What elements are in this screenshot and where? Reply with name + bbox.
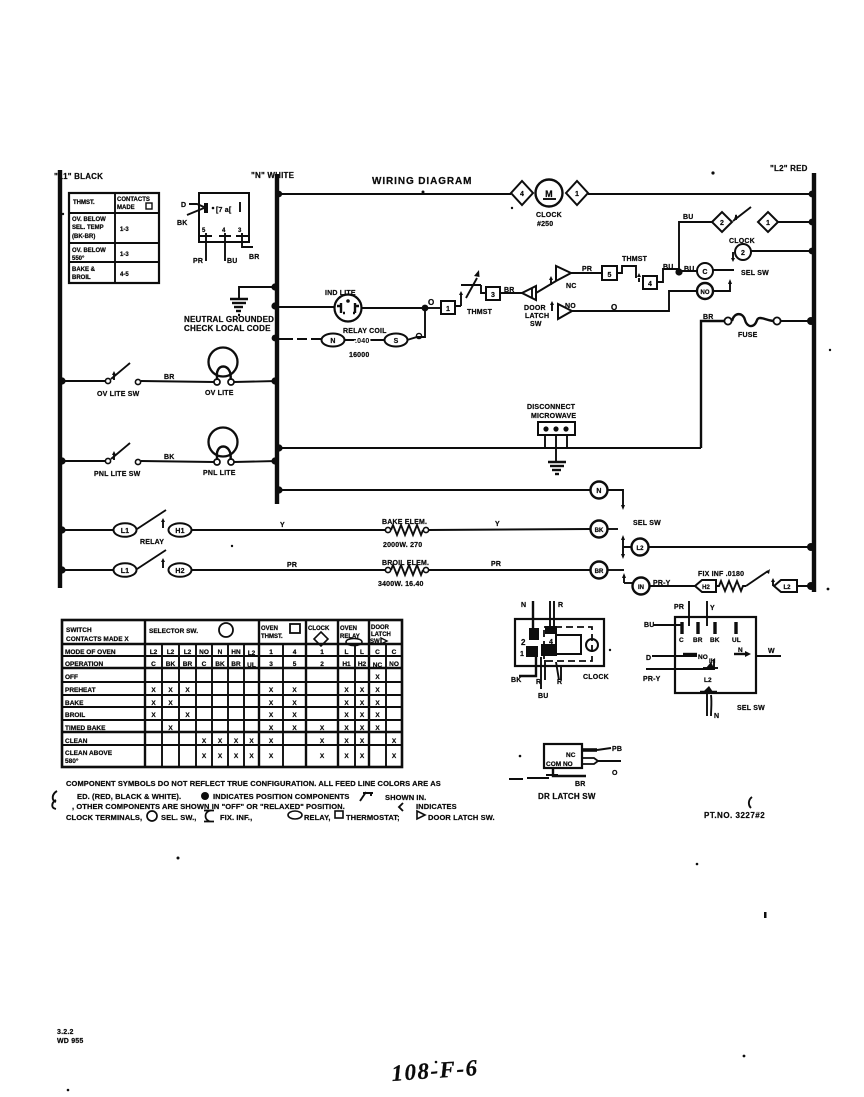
- svg-text:X: X: [168, 725, 173, 732]
- svg-text:(BK-BR): (BK-BR): [72, 234, 95, 240]
- scan mark paren: [749, 797, 752, 808]
- svg-text:O: O: [428, 298, 434, 307]
- terminal o: [416, 333, 421, 338]
- svg-text:X: X: [292, 712, 297, 719]
- svg-text:L: L: [360, 649, 364, 656]
- svg-text:NC: NC: [566, 283, 577, 290]
- terminal box 3: [486, 287, 500, 300]
- svg-text:PR: PR: [582, 266, 592, 273]
- lead Y: [706, 601, 708, 626]
- node N pnl lite: [271, 457, 278, 464]
- wire N bus to relay coil (dashed scan): [277, 338, 321, 340]
- svg-text:NC: NC: [373, 662, 383, 669]
- svg-text:L2: L2: [783, 585, 791, 591]
- clock terminal 1b (diamond): [758, 212, 778, 232]
- node N sel row: [275, 486, 282, 493]
- svg-text:M: M: [545, 189, 553, 199]
- wire PR-Y: [646, 659, 714, 669]
- wire fuse corner BR: [701, 321, 725, 448]
- svg-text:SEL SW: SEL SW: [737, 705, 765, 712]
- svg-text:X: X: [344, 725, 349, 732]
- svg-text:N: N: [714, 713, 719, 720]
- svg-text:OPERATION: OPERATION: [65, 661, 103, 668]
- wire L1 to pnl lite sw: [60, 460, 106, 462]
- svg-text:X: X: [185, 687, 190, 694]
- svg-text:R: R: [558, 602, 563, 609]
- svg-text:BROIL: BROIL: [65, 712, 85, 719]
- clock detail box: [515, 619, 609, 681]
- svg-text:PT.NO. 3227#2: PT.NO. 3227#2: [704, 811, 765, 820]
- clock lead BU: [540, 657, 542, 689]
- svg-text:OV LITE SW: OV LITE SW: [97, 391, 140, 398]
- node BU junction: [675, 268, 682, 275]
- svg-text:1-3: 1-3: [120, 227, 129, 233]
- svg-text:BK: BK: [164, 454, 175, 461]
- svg-text:OV. BELOW: OV. BELOW: [72, 248, 106, 254]
- svg-text:3.2.2: 3.2.2: [57, 1029, 74, 1036]
- table X marks: [151, 674, 397, 760]
- contact arrow clock2: [732, 252, 734, 258]
- svg-text:IND LITE: IND LITE: [325, 290, 356, 297]
- terminal box 4: [643, 276, 657, 289]
- lead D to NO: [646, 654, 708, 662]
- wire pnl lamp to N bus: [234, 461, 277, 462]
- svg-text:DOOR: DOOR: [371, 625, 390, 631]
- svg-text:S: S: [394, 338, 399, 345]
- svg-text:X: X: [269, 753, 274, 760]
- svg-text:COMPONENT SYMBOLS DO NOT REFLE: COMPONENT SYMBOLS DO NOT REFLECT TRUE CO…: [66, 779, 441, 788]
- wire pin3 BR: [242, 236, 253, 247]
- svg-text:CLOCK: CLOCK: [583, 674, 609, 681]
- svg-text:X: X: [375, 687, 380, 694]
- fix inf H2 terminal: [695, 580, 716, 592]
- svg-text:BAKE: BAKE: [65, 700, 84, 707]
- sel sw N terminal: [591, 482, 608, 499]
- resistor fix inf: [716, 581, 746, 591]
- svg-text:L1: L1: [121, 568, 130, 575]
- wire microwave row: [277, 447, 701, 449]
- wire N bus to clock motor (top line): [277, 193, 511, 195]
- fuse: [724, 314, 780, 339]
- node L2 top: [809, 191, 816, 198]
- coil value .040: [344, 339, 385, 341]
- svg-text:2: 2: [521, 638, 526, 647]
- node N relay coil: [272, 335, 279, 342]
- svg-text:DOOR: DOOR: [524, 305, 546, 312]
- wire box 3 BR to door latch: [500, 292, 522, 294]
- svg-text:NEUTRAL GROUNDED: NEUTRAL GROUNDED: [184, 315, 274, 324]
- svg-text:X: X: [249, 738, 254, 745]
- table operation row cells: [151, 661, 399, 669]
- svg-text:RELAY COIL: RELAY COIL: [343, 328, 387, 335]
- svg-text:BR: BR: [504, 287, 515, 294]
- svg-text:L2: L2: [248, 650, 256, 657]
- svg-text:BK: BK: [177, 220, 188, 227]
- svg-text:D: D: [181, 202, 186, 209]
- wire junction to C circle: [679, 270, 697, 272]
- svg-text:DR LATCH SW: DR LATCH SW: [538, 792, 596, 801]
- svg-text:580°: 580°: [65, 757, 79, 765]
- node L2 fix inf: [807, 582, 815, 590]
- wire BU vertical diamond2: [679, 222, 712, 272]
- wire diamond1b to L2 bus: [778, 221, 814, 223]
- wire L1 to ov lite sw: [60, 380, 106, 382]
- relay L1 contact a: [114, 523, 137, 537]
- node neutral ground tap: [271, 283, 278, 290]
- wire node O to box 1: [428, 307, 441, 309]
- ground microwave: [548, 448, 566, 474]
- svg-text:FIX. INF.,: FIX. INF.,: [220, 813, 252, 822]
- wire L2 terminal to L2 bus: [649, 546, 814, 548]
- node L2 fuse: [807, 317, 815, 325]
- svg-text:THMST: THMST: [467, 309, 493, 316]
- relay blade a: [137, 510, 166, 529]
- svg-text:L2: L2: [167, 649, 175, 656]
- door latch detail box: [544, 744, 582, 768]
- svg-text:OFF: OFF: [65, 674, 78, 681]
- svg-text:L: L: [345, 649, 349, 656]
- clock motor M: [536, 180, 563, 207]
- ground (neutral): [230, 299, 248, 315]
- sel sw NO terminal: [697, 283, 713, 299]
- svg-text:1-3: 1-3: [120, 252, 129, 258]
- node O: [422, 305, 429, 312]
- svg-text:OV LITE: OV LITE: [205, 390, 234, 397]
- svg-text:ED. (RED, BLACK & WHITE).: ED. (RED, BLACK & WHITE).: [77, 792, 181, 801]
- svg-text:X: X: [269, 700, 274, 707]
- svg-text:2000W. 270: 2000W. 270: [383, 542, 422, 549]
- svg-text:INDICATES POSITION COMPONENTS: INDICATES POSITION COMPONENTS: [213, 792, 350, 801]
- svg-text:O: O: [612, 770, 618, 777]
- svg-text:"L1" BLACK: "L1" BLACK: [54, 172, 103, 181]
- svg-text:X: X: [320, 738, 325, 745]
- svg-text:SEL. TEMP: SEL. TEMP: [72, 225, 104, 231]
- svg-text:IN: IN: [638, 585, 644, 591]
- svg-text:L2: L2: [704, 677, 712, 684]
- wire H2 to broil elem PR: [192, 569, 386, 571]
- door latch lead PB: [582, 746, 622, 753]
- svg-text:SEL SW: SEL SW: [633, 520, 661, 527]
- terminal box 5: [602, 266, 617, 280]
- wire IN to fix inf: [650, 585, 696, 587]
- svg-text:INDICATES: INDICATES: [416, 802, 457, 811]
- svg-text:2: 2: [741, 250, 745, 257]
- label CLOCK 8250: [536, 212, 562, 228]
- svg-text:X: X: [218, 753, 223, 760]
- svg-text:CLEAN ABOVE: CLEAN ABOVE: [65, 750, 113, 757]
- bus N (neutral feed line): [251, 171, 295, 504]
- svg-text:2: 2: [320, 661, 324, 668]
- svg-text:16000: 16000: [349, 352, 369, 359]
- wire NO contact to NO circle: [572, 291, 697, 311]
- contact IH: [703, 658, 718, 668]
- svg-text:H1: H1: [175, 528, 184, 535]
- scan specks: [62, 171, 831, 1091]
- switch blade BK: [187, 208, 204, 215]
- svg-text:MICROWAVE: MICROWAVE: [531, 413, 576, 420]
- sel sw detail box: [675, 617, 756, 693]
- wire pin4 BU: [224, 236, 226, 261]
- sel sw detail terminal C: [679, 622, 684, 644]
- svg-text:LATCH: LATCH: [525, 313, 549, 320]
- svg-text:PR: PR: [674, 604, 684, 611]
- sel sw BK terminal: [591, 521, 608, 538]
- svg-text:5: 5: [607, 272, 611, 279]
- node L1 ov lite: [58, 377, 65, 384]
- svg-text:TIMED BAKE: TIMED BAKE: [65, 725, 106, 732]
- wire box 5 to box 4: [617, 266, 636, 278]
- wire clock2 to L2 bus: [751, 250, 814, 252]
- svg-text:UL: UL: [732, 637, 741, 644]
- node L1 broil row: [58, 566, 65, 573]
- svg-text:NO: NO: [565, 303, 576, 310]
- wire N bus to N terminal: [277, 489, 590, 491]
- clock lead BK: [519, 657, 536, 676]
- svg-text:X: X: [360, 712, 365, 719]
- svg-text:"L2" RED: "L2" RED: [770, 164, 808, 173]
- svg-text:DOOR LATCH SW.: DOOR LATCH SW.: [428, 813, 495, 822]
- clock terminal 2 circle: [735, 244, 751, 260]
- svg-text:BROIL: BROIL: [72, 275, 91, 281]
- svg-text:C: C: [202, 661, 207, 668]
- svg-text:WD 955: WD 955: [57, 1038, 84, 1045]
- svg-text:CONTACTS MADE X: CONTACTS MADE X: [66, 636, 129, 643]
- svg-text:SELECTOR SW.: SELECTOR SW.: [149, 628, 198, 635]
- svg-text:PR-Y: PR-Y: [643, 676, 661, 683]
- clock lead R2: [544, 660, 546, 680]
- terminal box 1: [441, 301, 455, 314]
- node L1 pnl lite: [58, 457, 65, 464]
- svg-text:PR: PR: [491, 561, 501, 568]
- svg-text:SW: SW: [370, 639, 380, 645]
- svg-text:X: X: [344, 687, 349, 694]
- bus L2 (right feed line): [770, 164, 814, 592]
- thermostat contacts table: [69, 193, 159, 283]
- svg-text:OVEN: OVEN: [261, 626, 278, 632]
- svg-text:X: X: [392, 738, 397, 745]
- lead BU: [653, 624, 682, 626]
- wire lamp to N bus: [234, 381, 277, 382]
- svg-text:BU: BU: [644, 622, 655, 629]
- svg-text:X: X: [292, 687, 297, 694]
- svg-text:X: X: [185, 712, 190, 719]
- svg-text:X: X: [168, 700, 173, 707]
- wire L1 to relay L1b: [60, 569, 114, 571]
- svg-text:#250: #250: [537, 221, 553, 228]
- svg-text:BAKE ELEM.: BAKE ELEM.: [382, 519, 427, 526]
- sel sw movable IN: [623, 577, 625, 583]
- switch OV LITE SW: [97, 363, 141, 398]
- svg-text:PNL LITE: PNL LITE: [203, 470, 236, 477]
- lead N bottom double: [707, 693, 711, 716]
- svg-text:BR: BR: [249, 254, 260, 261]
- svg-text:THMST.: THMST.: [73, 200, 95, 206]
- lamp PNL LITE: [203, 428, 238, 478]
- inner contact bar: [204, 203, 208, 213]
- switch PNL LITE SW: [94, 443, 141, 478]
- svg-text:X: X: [344, 700, 349, 707]
- svg-text:3: 3: [491, 292, 495, 299]
- svg-text:4-5: 4-5: [120, 272, 129, 278]
- node N ov lite: [271, 377, 278, 384]
- lamp IND LITE: [325, 290, 362, 322]
- svg-text:"N" WHITE: "N" WHITE: [251, 171, 295, 180]
- svg-text:O: O: [611, 303, 617, 312]
- table mode row cells: [150, 649, 397, 657]
- svg-text:C: C: [679, 637, 684, 644]
- door latch lead O: [582, 758, 621, 777]
- wire to neutral ground: [239, 287, 275, 298]
- switch contacts table: [62, 620, 402, 767]
- svg-text:5: 5: [293, 661, 297, 668]
- svg-text:BU: BU: [538, 693, 549, 700]
- door latch NC contact (triangle): [549, 266, 577, 290]
- svg-text:SEL SW: SEL SW: [741, 270, 769, 277]
- sel sw BR terminal: [591, 562, 608, 579]
- svg-text:X: X: [360, 687, 365, 694]
- svg-text:N: N: [596, 488, 601, 495]
- node L2 clock2: [809, 248, 816, 255]
- svg-text:X: X: [269, 725, 274, 732]
- svg-text:Y: Y: [280, 522, 285, 529]
- node N ind-lite: [271, 302, 278, 309]
- svg-text:CLEAN: CLEAN: [65, 738, 88, 745]
- wire ind lite to node O: [361, 307, 425, 309]
- fix inf L2 terminal: [774, 580, 797, 592]
- svg-text:SWITCH: SWITCH: [66, 627, 92, 634]
- svg-text:3: 3: [269, 661, 273, 668]
- svg-text:THERMOSTAT;: THERMOSTAT;: [346, 813, 400, 822]
- relay coil N terminal: [322, 334, 345, 347]
- svg-text:X: X: [234, 738, 239, 745]
- clock lead R double: [550, 601, 554, 629]
- svg-text:BR: BR: [231, 661, 241, 668]
- svg-text:X: X: [218, 738, 223, 745]
- clock terminals blobs: [520, 626, 557, 658]
- contact arrow L2 box: [772, 581, 774, 586]
- svg-text:4: 4: [520, 191, 524, 198]
- svg-text:BR: BR: [575, 781, 586, 788]
- svg-text:BU: BU: [227, 258, 238, 265]
- svg-text:X: X: [249, 753, 254, 760]
- svg-text:BR: BR: [703, 314, 714, 321]
- relay blade b: [137, 550, 166, 569]
- svg-text:CHECK LOCAL CODE: CHECK LOCAL CODE: [184, 324, 271, 333]
- svg-text:4: 4: [293, 649, 297, 656]
- disconnect microwave receptacle: [527, 404, 576, 448]
- node L2 d1: [809, 219, 816, 226]
- node N top: [276, 191, 282, 197]
- svg-text:NO: NO: [389, 661, 399, 668]
- svg-text:BU: BU: [663, 264, 674, 271]
- svg-text:1: 1: [446, 306, 450, 313]
- svg-text:1: 1: [575, 191, 579, 198]
- svg-text:1: 1: [320, 649, 324, 656]
- heater BAKE ELEM 2000W: [382, 519, 429, 549]
- svg-text:3400W. 16.40: 3400W. 16.40: [378, 581, 424, 588]
- heater BROIL ELEM 3400W: [378, 560, 429, 588]
- svg-text:X: X: [360, 753, 365, 760]
- svg-text:N: N: [521, 602, 526, 609]
- svg-text:SHOWN IN.: SHOWN IN.: [385, 793, 426, 802]
- wire L2 terminal to bus: [797, 585, 814, 587]
- switch blade fix inf: [746, 571, 768, 586]
- lamp OV LITE: [205, 348, 238, 398]
- svg-text:X: X: [375, 725, 380, 732]
- wire broil elem to BR terminal: [429, 569, 590, 571]
- wire ov lite sw to lamp BR: [141, 381, 214, 382]
- clock terminal 2 (diamond): [712, 212, 732, 232]
- svg-text:SEL. SW.,: SEL. SW.,: [161, 813, 197, 822]
- svg-text:.040: .040: [355, 338, 369, 345]
- node N microwave: [275, 444, 282, 451]
- svg-text:X: X: [151, 712, 156, 719]
- svg-text:THMST: THMST: [622, 256, 648, 263]
- svg-text:MADE: MADE: [117, 205, 135, 211]
- svg-text:BK: BK: [710, 637, 720, 644]
- svg-text:4: 4: [549, 639, 553, 646]
- clock terminal 1 (diamond): [566, 181, 588, 205]
- svg-text:1: 1: [766, 220, 770, 227]
- svg-text:X: X: [360, 738, 365, 745]
- svg-text:C: C: [151, 661, 156, 668]
- svg-text:BR: BR: [595, 569, 604, 575]
- node L2 sel: [807, 543, 815, 551]
- door latch NO contact (triangle): [550, 301, 576, 319]
- thermostat contact THMST: [455, 270, 493, 316]
- svg-text:BAKE &: BAKE &: [72, 267, 96, 273]
- svg-text:PREHEAT: PREHEAT: [65, 687, 96, 694]
- relay H2 contact: [169, 563, 192, 577]
- svg-text:H2: H2: [175, 568, 184, 575]
- svg-text:X: X: [168, 687, 173, 694]
- svg-text:BR: BR: [693, 637, 703, 644]
- svg-text:X: X: [320, 753, 325, 760]
- svg-text:THMST.: THMST.: [261, 634, 283, 640]
- svg-text:LATCH: LATCH: [371, 632, 391, 638]
- sel sw detail terminal BR: [693, 622, 703, 644]
- svg-text:Y: Y: [710, 605, 715, 612]
- wire pin5 PR: [205, 236, 207, 261]
- svg-text:DISCONNECT: DISCONNECT: [527, 404, 576, 411]
- table row labels: [65, 649, 116, 765]
- wire BK stub: [608, 528, 618, 530]
- sel sw detail terminal UL: [732, 622, 741, 644]
- label neutral grounded: [184, 315, 274, 333]
- svg-text:[7 a[: [7 a[: [216, 207, 232, 214]
- table header labels: [66, 623, 391, 646]
- svg-text:X: X: [392, 753, 397, 760]
- svg-text:C: C: [702, 269, 707, 276]
- svg-text:BR: BR: [183, 661, 193, 668]
- svg-text:N: N: [218, 649, 223, 656]
- svg-text:PB: PB: [612, 746, 622, 753]
- svg-text:RELAY: RELAY: [140, 539, 164, 546]
- svg-text:BR: BR: [164, 374, 175, 381]
- svg-text:L2: L2: [184, 649, 192, 656]
- svg-text:COM NO: COM NO: [546, 761, 573, 768]
- svg-text:X: X: [344, 712, 349, 719]
- svg-text:X: X: [234, 753, 239, 760]
- svg-text:X: X: [360, 700, 365, 707]
- svg-text:X: X: [375, 712, 380, 719]
- svg-text:UL: UL: [247, 662, 256, 669]
- svg-text:W: W: [768, 648, 775, 655]
- svg-text:2: 2: [720, 220, 724, 227]
- svg-text:BK: BK: [595, 528, 604, 534]
- svg-text:H2: H2: [358, 661, 367, 668]
- wire door latch to NC contact: [536, 281, 556, 293]
